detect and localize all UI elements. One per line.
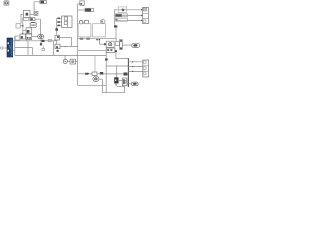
wire: [60, 45, 78, 47]
wire: [78, 3, 81, 5]
tag (goto): [100, 72, 103, 75]
block MUX2 (tall right-mid block): [143, 60, 149, 77]
block U29 (pill): [132, 43, 140, 47]
wire: [67, 61, 70, 63]
block U32 (dark tag): [124, 73, 128, 76]
block U23: [115, 18, 127, 21]
wire: [100, 40, 107, 44]
tag on wire: [85, 73, 89, 75]
wire: [30, 13, 34, 15]
wire: [20, 25, 23, 27]
block U3 (converter right of U1): [34, 11, 38, 15]
block U27: [106, 48, 115, 52]
wire: [115, 14, 143, 16]
wire: [21, 14, 24, 23]
block U14 (integrator): [55, 44, 60, 48]
block U19 (sum circle): [79, 21, 82, 24]
port dots: [80, 38, 90, 40]
arrow below U33: [115, 84, 117, 86]
arrowheads: [132, 61, 134, 72]
wire: [78, 84, 107, 86]
block U4: [16, 24, 20, 28]
junction: [22, 25, 23, 26]
wire: [76, 61, 78, 63]
arrowheads: [141, 9, 143, 21]
wire: [105, 52, 107, 93]
wire: [53, 41, 55, 56]
wire: [117, 85, 125, 87]
block U5 (stacked ellipse pair): [30, 22, 37, 27]
wire: [97, 73, 124, 75]
arrowhead: [65, 46, 67, 48]
wire: [99, 78, 102, 80]
block U30: [92, 72, 97, 76]
block U37 (tag on wire): [48, 39, 51, 41]
wire: [128, 62, 142, 72]
wire: [116, 66, 118, 77]
block U24 (dark junction): [114, 25, 117, 27]
label w: [55, 28, 58, 31]
oval port: [101, 20, 106, 24]
wire: [115, 19, 143, 21]
wire: [32, 36, 38, 38]
wire: [15, 48, 33, 56]
wire: [56, 40, 58, 44]
block U10 (circle pair): [38, 35, 44, 39]
block U18 (dark wide block): [85, 8, 94, 11]
tag on wire: [105, 59, 108, 61]
wire: [57, 18, 62, 25]
wire: [35, 19, 41, 34]
block MUX1 (tall right block): [143, 7, 149, 23]
block FMU (blue plant block): [7, 38, 13, 57]
wire: [15, 40, 42, 41]
block U17: [80, 1, 84, 5]
block U12 (bus selector pair): [62, 16, 73, 28]
block U7: [20, 34, 26, 39]
block U36: [15, 36, 19, 40]
wire: [13, 36, 15, 55]
wire: [56, 18, 58, 35]
wire: [116, 52, 129, 58]
wire: [94, 55, 96, 72]
wire: [60, 37, 72, 39]
wire: [3, 47, 7, 49]
wire: [42, 46, 44, 49]
wire: [78, 9, 85, 11]
block U34: [123, 78, 128, 86]
wire: [40, 39, 42, 44]
block U31 (motor circle): [93, 76, 99, 81]
wire: [23, 30, 26, 32]
block U33 (dark block): [114, 77, 118, 83]
block U9 (small gain top): [30, 18, 35, 21]
wire: [78, 73, 92, 75]
wire: [115, 39, 117, 42]
wire: [114, 9, 116, 25]
wire: [22, 18, 24, 35]
junction: [22, 33, 23, 34]
wire: [102, 79, 124, 93]
wire: [115, 28, 117, 39]
block U11 (dark tag on wire): [42, 40, 45, 42]
wire: [115, 9, 143, 11]
wire: [83, 21, 85, 23]
wire: [78, 49, 107, 51]
block U15 (sensor circle): [63, 59, 67, 63]
wire: [27, 41, 29, 56]
arrow tag: [104, 43, 106, 45]
block U1 (stateflow chart): [24, 11, 31, 18]
block U20: [85, 21, 89, 24]
block U2 (top source block): [40, 1, 46, 4]
block PLANT-L (subsystem): [78, 24, 91, 37]
dark mark right of U27: [115, 50, 117, 52]
wire: [45, 40, 57, 42]
tag below U14: [57, 50, 59, 52]
block U16: [70, 59, 76, 64]
wire: [71, 38, 73, 47]
wire (long bus under plant): [78, 38, 116, 40]
block U35 (pill): [132, 82, 139, 86]
block LOGO (top-left annotation): [4, 1, 9, 5]
block U3b (below U1): [24, 18, 29, 21]
wire (thick bus): [127, 58, 129, 87]
tag: [40, 43, 42, 45]
block U8: [26, 34, 32, 40]
node markers: [58, 18, 60, 27]
input port circle: [1, 47, 3, 49]
wire: [106, 65, 128, 67]
block U6: [26, 28, 32, 34]
block U13: [55, 35, 60, 40]
wire: [118, 80, 123, 82]
terminator: [42, 49, 45, 51]
block U26: [115, 42, 119, 46]
wire: [64, 56, 66, 60]
block U22: [115, 14, 127, 17]
wire (main vertical spine): [77, 4, 79, 85]
wire: [15, 54, 106, 56]
block PLANT-R (subsystem): [93, 24, 106, 37]
wire: [34, 2, 40, 12]
port marks under R: [96, 39, 100, 41]
block U25 (sum subsystem): [106, 41, 114, 47]
block U28 (narrow vertical): [120, 40, 123, 50]
wire: [122, 44, 132, 46]
wire: [127, 83, 132, 85]
block U21 (signal editor): [118, 7, 126, 12]
